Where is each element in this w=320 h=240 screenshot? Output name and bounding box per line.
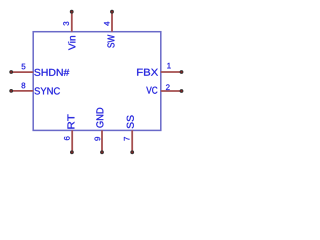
pin 2 number: [166, 84, 170, 90]
pin name SHDN#: [34, 69, 69, 76]
pin 9 number: [95, 137, 101, 141]
pin name SW: [107, 35, 114, 48]
pin name RT: [68, 114, 75, 128]
pin 6 wire (RT, bottom): [71, 130, 73, 152]
pin 4 end dot: [110, 10, 114, 14]
pin name SS: [127, 115, 134, 128]
pin 5 end dot: [9, 70, 13, 74]
pin name GND: [96, 108, 103, 128]
pin 6 end dot: [70, 150, 74, 154]
pin 4 wire (SW, top): [111, 12, 113, 32]
pin 7 end dot: [130, 150, 134, 154]
pin 2 end dot: [180, 89, 184, 93]
pin name Vin: [68, 36, 75, 50]
pin 8 wire (SYNC, left): [12, 90, 34, 92]
pin name VC: [146, 87, 157, 94]
pin 2 wire (VC, right): [161, 90, 182, 92]
pin 3 wire (Vin, top): [71, 12, 73, 32]
IC symbol body U1: [33, 32, 161, 131]
pin 1 wire (FBX, right): [161, 71, 182, 73]
pin name FBX: [137, 69, 158, 76]
pin 9 wire (GND, bottom): [101, 130, 103, 152]
pin 3 number: [63, 22, 69, 26]
pin 7 wire (SS, bottom): [131, 130, 133, 152]
pin name SYNC: [34, 87, 59, 94]
pin 5 number: [22, 64, 26, 70]
pin 8 number: [22, 83, 26, 89]
pin 1 number: [167, 63, 170, 69]
pin 3 end dot: [70, 10, 74, 14]
pin 5 wire (SHDN#, left): [12, 71, 34, 73]
pin 1 end dot: [180, 70, 184, 74]
pin 8 end dot: [9, 89, 13, 93]
pin 7 number: [124, 137, 130, 141]
pin 4 number: [104, 22, 110, 26]
pin 6 number: [64, 136, 70, 140]
pin 9 end dot: [100, 150, 104, 154]
